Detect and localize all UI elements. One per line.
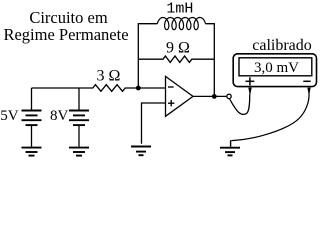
svg-text:5V: 5V: [0, 108, 19, 124]
svg-text:3,0 mV: 3,0 mV: [254, 60, 299, 76]
svg-text:1mH: 1mH: [166, 0, 193, 17]
svg-text:9 Ω: 9 Ω: [166, 39, 190, 56]
svg-text:Regime Permanete: Regime Permanete: [3, 25, 128, 44]
svg-text:3 Ω: 3 Ω: [96, 67, 120, 84]
svg-text:calibrado: calibrado: [252, 37, 312, 54]
svg-text:8V: 8V: [50, 108, 69, 124]
